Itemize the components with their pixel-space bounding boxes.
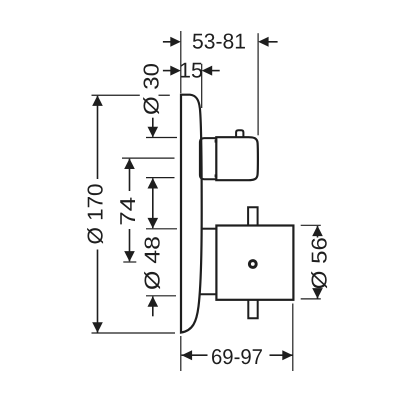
svg-text:53-81: 53-81 <box>192 30 246 54</box>
ext line: 15 right (plate front) <box>201 64 203 108</box>
svg-text:Ø 170: Ø 170 <box>83 183 107 244</box>
volume handle <box>216 137 258 180</box>
ext line: dia30 top <box>146 137 177 139</box>
dim line: dia30 upper stub <box>152 118 154 137</box>
dim line: 74 vertical <box>129 159 131 261</box>
ext line: dia48 bottom <box>146 295 176 297</box>
escutcheon plate (side view) <box>181 95 202 333</box>
thermostat collar top line <box>201 228 217 230</box>
svg-text:Ø 48: Ø 48 <box>140 236 164 290</box>
ext line: 69-97 right <box>292 304 294 372</box>
ext line: dia30 bottom <box>146 177 175 179</box>
arrowhead: 69-97 left (points left) <box>182 350 193 360</box>
ext line: dia170 top <box>92 94 170 96</box>
thermostat square handle <box>216 226 293 300</box>
ext line: 74 top <box>122 157 175 159</box>
arrowhead: dia170 bottom (points down) <box>92 322 103 333</box>
square handle bottom stem <box>248 300 257 318</box>
arrowhead: 74 bottom (points down) <box>124 251 135 262</box>
square handle top stem <box>248 207 258 225</box>
volume handle sleeve <box>200 138 216 179</box>
center dot on square handle <box>249 261 256 268</box>
ext line: 53-81 right (handle front) <box>257 33 259 135</box>
arrowhead: dia56 top (points up) <box>312 226 323 237</box>
dim line: dia170 vertical <box>97 96 99 333</box>
ext line: dia56 top <box>301 224 321 226</box>
ext line: wall/plate-left (shared 53-81 & 15) <box>180 31 182 93</box>
arrowhead: 69-97 right (points right) <box>282 350 293 360</box>
dim tail: 15 right arrow <box>211 70 220 72</box>
dim line: dia56 vertical <box>317 226 319 299</box>
dim line: dia48 lower stub <box>152 297 154 317</box>
arrowhead: 15 left (points right) <box>170 66 181 76</box>
sleeve-handle junction notch top <box>215 140 218 143</box>
sleeve-handle junction notch bottom <box>215 174 218 177</box>
svg-text:74: 74 <box>116 197 140 226</box>
ext line: 69-97 left <box>180 336 182 371</box>
svg-text:15: 15 <box>179 59 203 83</box>
arrowhead: dia30 bottom (points up, below bottom ext) <box>148 178 159 189</box>
arrowhead: dia170 top (points up) <box>92 95 103 106</box>
arrowhead: 15 right (points left) <box>202 66 213 76</box>
arrowhead: dia56 bottom (points down) <box>312 288 323 299</box>
dim tails: 53-81 outside arrows <box>163 41 278 43</box>
arrowhead: dia48 top (points down, above top ext) <box>148 218 159 229</box>
ext line: 74 bottom tick <box>123 261 136 263</box>
svg-text:Ø 56: Ø 56 <box>307 237 331 289</box>
thermostat collar bottom line <box>200 293 217 295</box>
arrowhead: 53-81 right (points left) <box>258 37 269 47</box>
ext line: dia56 bottom <box>301 298 321 300</box>
arrowhead: 74 top (points up) <box>124 159 135 170</box>
svg-text:69-97: 69-97 <box>211 345 263 369</box>
svg-text:Ø 30: Ø 30 <box>139 63 163 115</box>
arrowhead: dia48 bottom (points up, below bottom ext) <box>148 296 159 307</box>
ext line: dia170 bottom <box>92 332 176 334</box>
dim tail: 15 left arrow <box>163 70 172 72</box>
arrowhead: 53-81 left (points right) <box>170 37 181 47</box>
dim line: dia30/dia48 shared middle stub <box>152 178 154 228</box>
arrowhead: dia30 top (points down, above top ext) <box>148 127 159 138</box>
dim line: 69-97 <box>182 354 293 356</box>
volume handle top tab <box>236 130 243 137</box>
ext line: dia48 top <box>146 228 177 230</box>
